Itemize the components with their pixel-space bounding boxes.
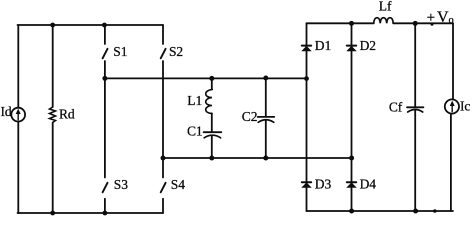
wire right output column <box>452 23 454 99</box>
svg-text:Lf: Lf <box>379 0 392 13</box>
node dot Vo terminal <box>431 23 434 26</box>
svg-text:S3: S3 <box>114 177 128 192</box>
node dot Cf top <box>413 21 418 26</box>
current source Ic <box>445 99 459 113</box>
svg-text:+Vo: +Vo <box>427 9 454 26</box>
switch S2 <box>162 25 164 44</box>
wire node A line <box>105 77 307 79</box>
svg-text:D4: D4 <box>360 176 377 191</box>
wire bottom-left rail <box>18 212 164 214</box>
node dot A right <box>304 76 309 81</box>
diode D1 <box>302 46 311 51</box>
svg-text:Rd: Rd <box>59 107 75 122</box>
node dot D2 top <box>349 21 354 26</box>
node dot Rd top <box>50 23 55 28</box>
svg-text:D3: D3 <box>315 176 332 191</box>
wire S2-S4 column middle <box>162 61 164 178</box>
svg-text:Cf: Cf <box>389 100 403 115</box>
wire top-left rail <box>18 24 164 26</box>
capacitor C1 <box>211 113 213 131</box>
current source Id <box>11 108 25 122</box>
svg-text:S4: S4 <box>171 177 185 192</box>
wire top-right rail <box>307 22 374 24</box>
node dot S1 top <box>102 23 107 28</box>
switch S4 <box>161 183 166 193</box>
inductor Lf <box>374 18 394 24</box>
wire left column (Id branch) <box>17 25 19 213</box>
node dot C2 bottom <box>263 156 268 161</box>
node dot L1 top <box>209 76 214 81</box>
node dot D2 mid <box>349 156 354 161</box>
wire S1-S3 column middle <box>104 61 106 178</box>
node dot Rd bottom <box>50 211 55 216</box>
diode D2 <box>347 46 356 51</box>
node dot C1 bottom <box>209 156 214 161</box>
capacitor Cf <box>414 23 416 107</box>
wire D1-D3 column <box>306 23 308 211</box>
svg-text:Id: Id <box>1 104 12 119</box>
node dot S3 bottom <box>103 211 108 216</box>
capacitor C2 <box>265 78 267 116</box>
svg-text:C1: C1 <box>187 123 203 138</box>
diode D4 <box>347 182 356 187</box>
svg-text:L1: L1 <box>187 93 202 108</box>
wire mid-bottom line <box>163 157 352 159</box>
node dot A left <box>102 76 107 81</box>
svg-text:D1: D1 <box>315 38 331 53</box>
diode D3 <box>302 182 311 187</box>
wire bottom-right rail <box>307 210 454 212</box>
switch S3 <box>103 183 108 193</box>
node dot C2 top <box>263 76 268 81</box>
svg-text:S2: S2 <box>169 44 183 59</box>
svg-text:Ic: Ic <box>460 99 470 114</box>
svg-text:S1: S1 <box>113 44 127 59</box>
node dot S4 mid <box>161 156 166 161</box>
node dot Cf bottom <box>413 209 418 214</box>
node dot D4 bottom <box>349 209 354 214</box>
switch S1 <box>104 25 106 44</box>
node dot return terminal <box>433 209 437 213</box>
wire D2-D4 column <box>351 23 353 211</box>
svg-text:D2: D2 <box>360 38 376 53</box>
svg-text:C2: C2 <box>242 109 258 124</box>
inductor L1 <box>211 78 213 89</box>
resistor Rd <box>52 25 54 107</box>
